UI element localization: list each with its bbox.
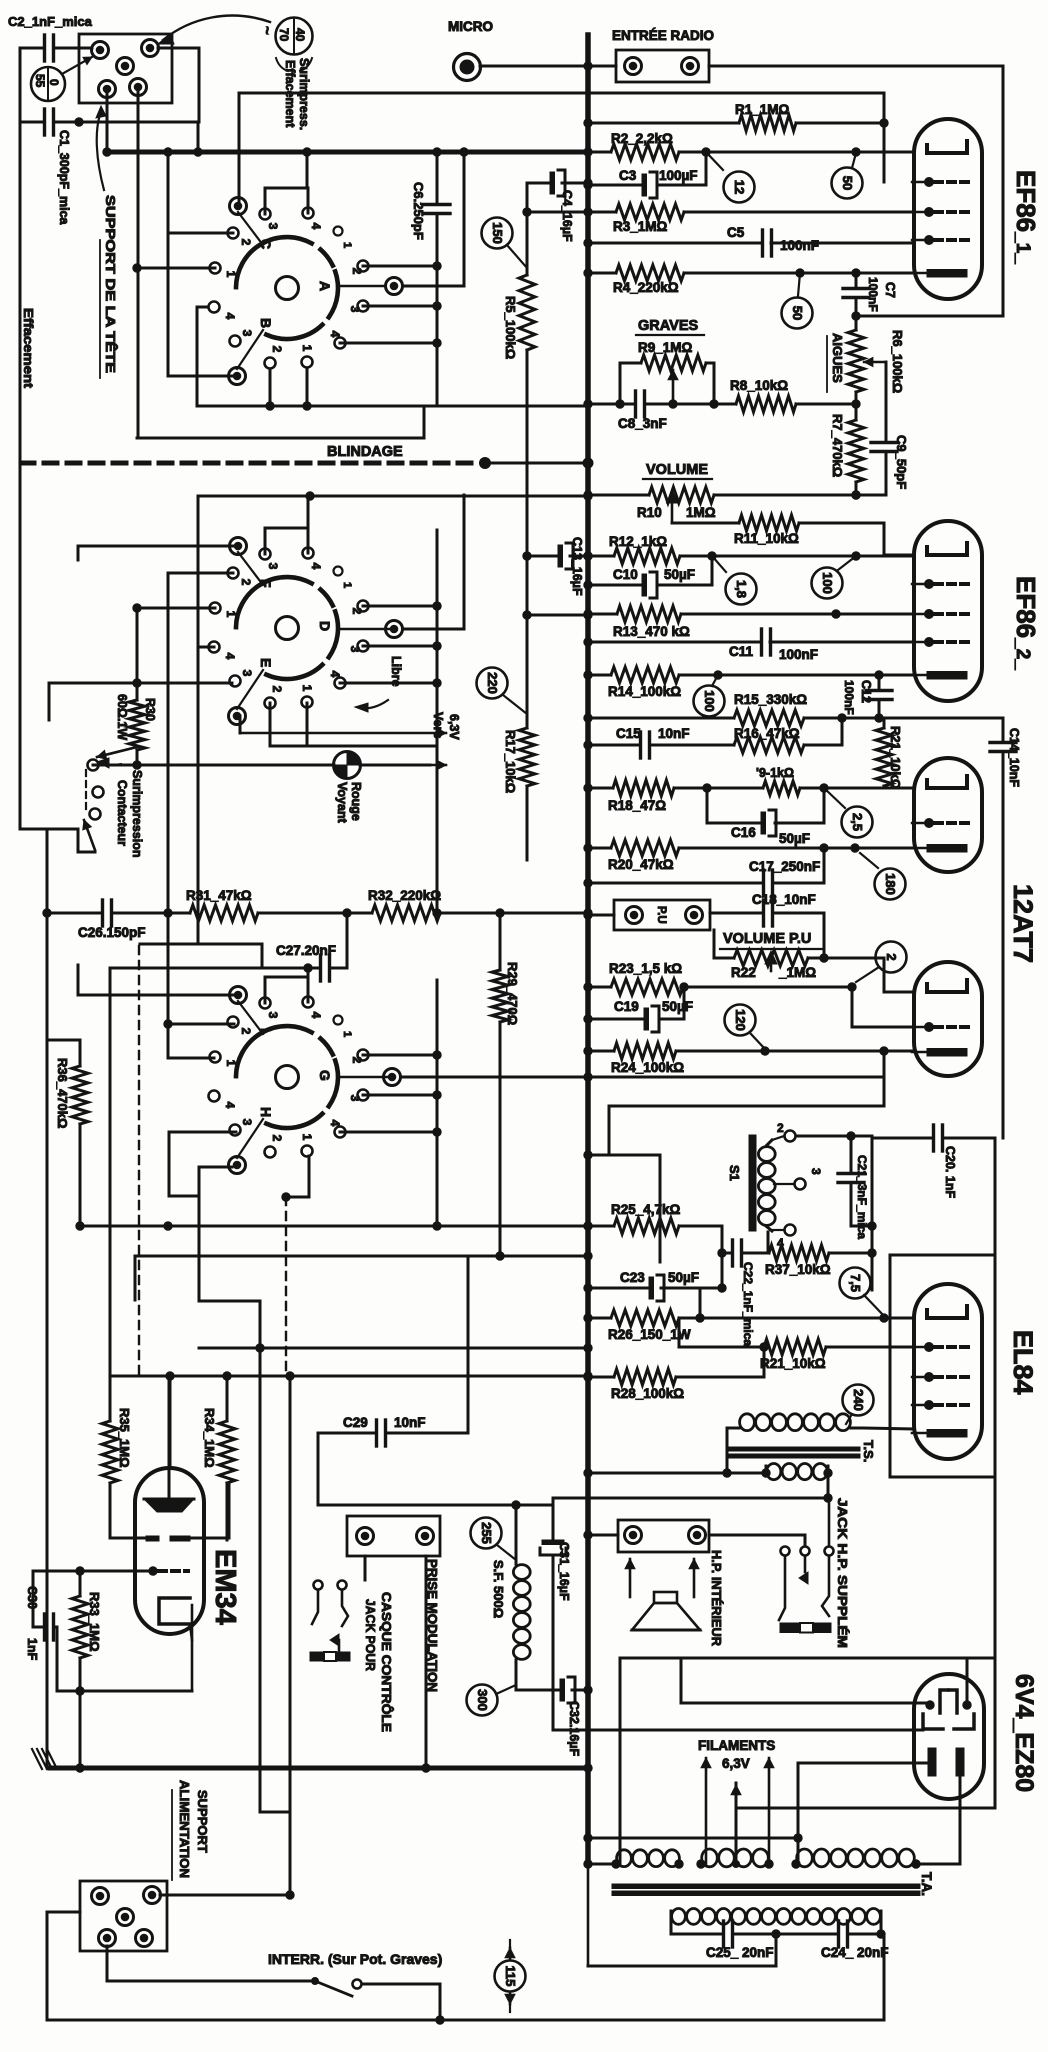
tube V6 EM34 deflectors [146, 1536, 190, 1541]
capacitor C32 [516, 1677, 592, 1757]
svg-text:C18_10nF: C18_10nF [752, 892, 816, 907]
svg-text:C7: C7 [883, 282, 897, 298]
svg-text:7,5: 7,5 [848, 1274, 863, 1292]
jack casque contacts [312, 1581, 348, 1653]
capacitor C12 [842, 675, 892, 722]
tube V6 EM34 bracket [159, 1598, 192, 1691]
wire [135, 1252, 592, 1300]
svg-text:2: 2 [270, 1135, 284, 1142]
transformer TS secondary [762, 1464, 832, 1480]
svg-text:C15: C15 [616, 726, 641, 741]
label support de la tete [100, 195, 118, 378]
node 255 [471, 1518, 517, 1561]
resistor R11 [672, 515, 914, 555]
resistor R28 [584, 1343, 768, 1401]
transformer TS primary [727, 1414, 914, 1431]
tube V6 EM34 target (filled) [144, 1499, 194, 1512]
node 7,5 [840, 1268, 889, 1323]
svg-text:4: 4 [328, 1120, 342, 1127]
svg-text:2: 2 [350, 608, 364, 615]
resistor R5 [503, 183, 535, 728]
wire [796, 1136, 876, 1230]
rotary switch wiper terminals [229, 198, 264, 385]
tube U3A 12AT7 anode (dashed) [912, 819, 968, 828]
tube U2 EF86_2 grid-3 (dashed) [912, 610, 968, 619]
resistor R7 [830, 392, 864, 499]
svg-text:EL84: EL84 [1008, 1330, 1038, 1395]
svg-text:2: 2 [239, 239, 253, 246]
wire [265, 964, 441, 1226]
svg-text:4: 4 [309, 1012, 323, 1019]
svg-text:3: 3 [266, 223, 280, 230]
contactor dashed link [85, 770, 87, 812]
wire [46, 913, 49, 1768]
wire [139, 496, 214, 1376]
capacitor C27 [110, 913, 347, 981]
svg-text:3: 3 [809, 1168, 823, 1175]
support alim box [80, 1881, 167, 1951]
wire [164, 573, 233, 1058]
capacitor C13 [527, 537, 592, 596]
label HP INTERIEUR [709, 1550, 724, 1647]
svg-text:4: 4 [328, 671, 342, 678]
capacitor C3 [584, 152, 706, 198]
tube U1 EF86_1 anode (dashed) [912, 236, 968, 245]
label 6V4_EZ80 [1010, 1674, 1038, 1792]
svg-text:1: 1 [300, 685, 314, 692]
svg-text:SUPPORT DE LA TÊTE: SUPPORT DE LA TÊTE [103, 195, 118, 373]
svg-text:2: 2 [270, 686, 284, 693]
label T.S [861, 1440, 876, 1462]
resistor R2 [584, 131, 914, 160]
rotary switch arcs [236, 577, 338, 679]
svg-text:100nF: 100nF [842, 680, 856, 715]
wire 6,3V feed [584, 1834, 802, 1842]
wire filament 2 [916, 1776, 960, 1864]
rotary switch wiper terminals [229, 987, 264, 1174]
tube U1 EF86_1 grid-2 (dashed) [912, 178, 968, 187]
svg-text:ALIMENTATION: ALIMENTATION [177, 1780, 192, 1878]
rotary switch hub [276, 277, 299, 300]
svg-text:2,5: 2,5 [850, 813, 865, 831]
node 50 a [832, 153, 863, 199]
svg-text:C26.150pF: C26.150pF [78, 925, 146, 940]
tube U3B 12AT7 cathode [912, 1049, 967, 1057]
capacitor C6 [411, 152, 450, 406]
tube V6 EM34 envelope [135, 1468, 204, 1634]
capacitor C25 [671, 1921, 780, 1960]
heavy bus y152 [103, 148, 588, 156]
svg-text:220: 220 [485, 672, 500, 694]
wire [588, 1864, 776, 1966]
svg-text:C31_16µF: C31_16µF [557, 1542, 571, 1601]
svg-text:R22: R22 [731, 965, 756, 980]
tube U4 EL84 grid-2 (dashed) [912, 1343, 968, 1352]
EL84 stage box [890, 1255, 995, 1477]
svg-text:BLINDAGE: BLINDAGE [327, 444, 403, 460]
svg-text:0: 0 [47, 79, 61, 86]
svg-text:100nF: 100nF [779, 647, 818, 662]
tube U4 EL84 envelope [914, 1284, 982, 1459]
resistor R13 [584, 606, 914, 639]
svg-text:R25_4,7kΩ: R25_4,7kΩ [611, 1202, 681, 1217]
svg-text:INTERR. (Sur Pot. Graves): INTERR. (Sur Pot. Graves) [268, 1951, 442, 1967]
rotary switch pins [209, 208, 369, 369]
node 100 b [694, 675, 725, 717]
svg-text:70: 70 [277, 28, 291, 42]
svg-text:S1: S1 [727, 1165, 742, 1181]
label C30 [25, 1586, 39, 1661]
resistor R25 [584, 1202, 722, 1253]
wire [137, 87, 140, 438]
svg-text:3: 3 [266, 563, 280, 570]
svg-text:R1_1MΩ: R1_1MΩ [735, 102, 790, 117]
svg-text:2: 2 [350, 268, 364, 275]
svg-text:Voyant: Voyant [335, 782, 349, 824]
wire anode row [681, 1658, 930, 1703]
svg-text:10nF: 10nF [394, 1415, 426, 1430]
wire [33, 1567, 153, 1575]
wire [883, 123, 886, 182]
rotary switch wiper terminals [229, 538, 264, 725]
label INTERR [268, 1951, 442, 1967]
svg-text:Rouge: Rouge [349, 782, 363, 821]
svg-text:C10: C10 [613, 567, 638, 582]
wire [57, 1687, 192, 1695]
node 100 a [712, 552, 914, 599]
svg-text:1: 1 [224, 271, 238, 278]
potentiometer R22 [714, 930, 914, 992]
tube V6 EM34 grid (dashed) [149, 1567, 188, 1575]
earth bus [50, 1764, 592, 1772]
wire [584, 1469, 832, 1502]
svg-text:CASQUE CONTRÔLE: CASQUE CONTRÔLE [379, 1592, 394, 1732]
resistor R31 [186, 888, 351, 921]
vers 6,3V arrows [240, 716, 446, 770]
resistor R26 [584, 1310, 914, 1342]
ground hatch [32, 1749, 57, 1769]
entree radio box [616, 50, 709, 82]
label VOLUME [643, 462, 712, 479]
svg-text:R3_1MΩ: R3_1MΩ [613, 219, 668, 234]
rotary switch arcs [236, 1026, 338, 1128]
label MICRO [448, 19, 493, 34]
svg-text:C1_300pF_mica: C1_300pF_mica [57, 130, 71, 226]
rotary switch hub [276, 617, 299, 640]
tube U3A 12AT7 envelope [914, 758, 982, 872]
resistor R8 [730, 378, 860, 412]
svg-text:C24_ 20nF: C24_ 20nF [821, 1945, 889, 1960]
svg-text:3: 3 [348, 1095, 362, 1102]
wire [881, 1934, 884, 2020]
svg-text:C12: C12 [859, 680, 873, 703]
svg-text:VOLUME P.U: VOLUME P.U [723, 931, 811, 947]
tube U1 EF86_1 cathode [912, 270, 967, 278]
wire [282, 1156, 309, 1201]
wire [168, 152, 237, 376]
potentiometer R6 [848, 316, 905, 438]
svg-text:JACK POUR: JACK POUR [363, 1599, 378, 1672]
label JACK POUR CASQUE CONTROLE [363, 1592, 394, 1732]
capacitor C20 [872, 1125, 995, 1198]
label EF86_1 [1011, 170, 1041, 264]
svg-text:1,8: 1,8 [734, 580, 749, 598]
wire [106, 89, 109, 152]
svg-text:C3: C3 [619, 168, 637, 183]
transformer TA winding 2 [697, 1849, 773, 1868]
node 300 [467, 1685, 517, 1716]
svg-text:B: B [258, 318, 274, 328]
svg-text:R4_220kΩ: R4_220kΩ [613, 280, 679, 295]
label EF86_2 [1011, 576, 1041, 670]
head socket box [79, 34, 172, 103]
svg-text:50µF: 50µF [779, 831, 810, 846]
capacitor C18 [710, 892, 824, 958]
wire volume row [584, 491, 860, 499]
svg-text:255: 255 [479, 1522, 494, 1544]
svg-text:50: 50 [840, 176, 855, 190]
capacitor C4 [527, 170, 592, 242]
wire [79, 48, 199, 122]
svg-text:R17_10kΩ: R17_10kΩ [503, 730, 518, 793]
resistor R33 [72, 1571, 102, 1691]
tube U3B 12AT7 grid bracket [927, 980, 967, 992]
resistor R15 [584, 692, 846, 726]
wire [340, 266, 437, 343]
svg-text:C8_3nF: C8_3nF [618, 416, 667, 431]
resistor R36 [55, 1040, 88, 1226]
tube V5 plate 1 [926, 1690, 948, 1713]
rotary switch section letters [258, 239, 333, 328]
terminal D out [338, 495, 464, 638]
svg-text:60Ω.1W: 60Ω.1W [115, 694, 129, 740]
svg-text:~: ~ [258, 26, 275, 35]
svg-text:P.U: P.U [655, 906, 667, 924]
svg-text:C4_16µF: C4_16µF [560, 190, 574, 242]
svg-text:50: 50 [790, 306, 805, 320]
svg-text:A: A [317, 281, 333, 291]
svg-text:3: 3 [240, 1119, 254, 1126]
tube U4 EL84 grid-1 bracket [927, 1306, 967, 1318]
tube V5 filaments [928, 1748, 964, 1776]
svg-text:JACK H.P. SUPPLÉM: JACK H.P. SUPPLÉM [835, 1498, 850, 1648]
terminal G out [338, 1069, 884, 1086]
svg-text:Libre: Libre [389, 656, 403, 687]
resistor R19 [756, 766, 914, 795]
svg-text:D: D [317, 621, 333, 631]
svg-text:T.S.: T.S. [861, 1440, 876, 1462]
capacitor C14 [990, 718, 1021, 1138]
svg-text:3: 3 [348, 646, 362, 653]
label C2 [8, 14, 93, 29]
capacitor C30 [33, 1571, 57, 1691]
label GRAVES [636, 318, 704, 335]
node 150 [482, 218, 528, 269]
wire [169, 1376, 172, 1468]
wire [709, 65, 1003, 68]
label VOLUME P.U [720, 931, 822, 949]
label S1 [727, 1165, 742, 1181]
wire [137, 406, 424, 438]
svg-text:C23: C23 [620, 1270, 645, 1285]
label HP SUPPLEM [835, 1498, 850, 1648]
svg-text:R5_100kΩ: R5_100kΩ [503, 296, 518, 359]
svg-text:2: 2 [239, 579, 253, 586]
svg-text:2: 2 [270, 346, 284, 353]
wire [723, 1428, 731, 1477]
node 1,8 [712, 556, 757, 605]
resistor R34 [202, 1376, 235, 1540]
wire [364, 1556, 367, 1580]
svg-text:EM34: EM34 [209, 1549, 241, 1625]
svg-text:40: 40 [293, 28, 307, 42]
resistor R4 [584, 265, 914, 295]
resistor R17 [503, 695, 535, 860]
wire [93, 764, 137, 767]
wire [318, 1501, 553, 1564]
svg-text:Vers: Vers [431, 712, 445, 738]
wire [584, 911, 614, 919]
label EM34 [209, 1549, 241, 1625]
bottom wire [95, 2019, 884, 2022]
resistor R14 [584, 667, 914, 699]
svg-text:3: 3 [240, 330, 254, 337]
tube U3A 12AT7 cathode [912, 845, 967, 853]
svg-text:4: 4 [223, 1102, 237, 1109]
svg-text:C16: C16 [731, 825, 756, 840]
svg-text:4: 4 [223, 653, 237, 660]
entree radio terminals [625, 58, 699, 75]
wire [76, 1691, 84, 1772]
wire [133, 604, 215, 683]
microphone [454, 54, 481, 81]
resistor R23 [584, 961, 914, 1027]
svg-text:12AT7: 12AT7 [1008, 884, 1038, 963]
wire [842, 717, 1003, 720]
wire [78, 965, 238, 995]
tube U2 EF86_2 envelope [914, 521, 982, 701]
svg-text:50µF: 50µF [662, 999, 693, 1014]
wire shield tap [198, 458, 593, 500]
wire [47, 1912, 95, 2020]
svg-text:12: 12 [732, 180, 747, 194]
svg-text:6,3V: 6,3V [447, 714, 461, 740]
svg-text:4: 4 [223, 313, 237, 320]
svg-text:100: 100 [702, 690, 717, 712]
tube V5 plate 2 [620, 1658, 995, 1713]
svg-text:300: 300 [475, 1689, 490, 1711]
coil SF 500 [491, 1560, 530, 1690]
wire [133, 264, 215, 272]
prise PU box [614, 900, 710, 930]
svg-text:4: 4 [328, 331, 342, 338]
svg-text:Effacement: Effacement [21, 308, 35, 389]
wire y404 left [197, 307, 588, 410]
svg-text:R21_10kΩ: R21_10kΩ [888, 726, 903, 789]
tube V5 diode brackets [923, 1714, 974, 1729]
svg-text:55: 55 [33, 74, 47, 88]
wire [19, 48, 22, 122]
wire [199, 1344, 592, 1352]
svg-text:R33_1MΩ: R33_1MΩ [87, 1592, 102, 1652]
capacitor C15 [584, 726, 690, 758]
wire [289, 1376, 292, 1895]
support alim pins [92, 1887, 161, 1947]
jack casque sleeve [310, 1652, 350, 1661]
coil S1 core [749, 1135, 756, 1231]
svg-text:SUPPORT: SUPPORT [195, 1790, 210, 1853]
svg-text:R18_47Ω: R18_47Ω [608, 798, 666, 813]
node 2 [856, 942, 907, 983]
resistor R32 [347, 888, 592, 921]
label Vers 6,3V [431, 712, 461, 740]
tube U4 EL84 grid-3 (dashed) [912, 1373, 968, 1382]
svg-text:1: 1 [341, 242, 353, 248]
jack HP supplem contacts [779, 1498, 834, 1620]
svg-text:C19: C19 [614, 999, 639, 1014]
wire [78, 546, 238, 560]
tube U1 EF86_1 grid-1 bracket [927, 141, 967, 153]
wire [553, 1497, 828, 1500]
svg-text:MICRO: MICRO [448, 19, 493, 34]
capacitor C19 [584, 987, 693, 1032]
label Effacement [21, 308, 35, 389]
label AIGUES [827, 333, 845, 392]
resistor R37 [765, 1245, 876, 1290]
svg-text:R28_100kΩ: R28_100kΩ [611, 1386, 684, 1401]
wire right column [994, 1138, 997, 1808]
capacitor C16 [707, 788, 824, 846]
svg-text:240: 240 [851, 1389, 866, 1411]
wire [270, 703, 437, 746]
capacitor C9 [856, 435, 909, 495]
contactor pole 1 [88, 747, 138, 798]
resistor R35 [102, 1376, 132, 1483]
resistor R3 [527, 204, 914, 234]
capacitor C22 [718, 1240, 769, 1346]
svg-text:100: 100 [820, 572, 835, 594]
wire [340, 530, 441, 917]
svg-text:R8_10kΩ: R8_10kΩ [730, 378, 788, 393]
svg-text:1: 1 [224, 611, 238, 618]
label EL84 [1008, 1330, 1038, 1395]
wire 6,3V tap [736, 1783, 995, 1864]
wire [265, 148, 311, 214]
svg-text:T.A.: T.A. [919, 1872, 934, 1896]
svg-text:C11: C11 [729, 644, 754, 659]
svg-text:R14_100kΩ: R14_100kΩ [608, 684, 681, 699]
rotary switch arcs [236, 237, 338, 339]
capacitor C24 [776, 1921, 889, 1960]
capacitor C29 [318, 1256, 468, 1505]
tube U3B 12AT7 envelope [914, 962, 982, 1076]
prise modulation box [347, 1516, 440, 1556]
bracket [276, 58, 312, 71]
label Effacement Surimpress. [283, 58, 311, 130]
svg-text:C9_50pF: C9_50pF [894, 435, 909, 489]
wire [768, 1226, 872, 1253]
tube U1 EF86_1 grid-3 (dashed) [912, 208, 968, 217]
capacitor C31 [540, 1498, 571, 1730]
wire bracket row [553, 1729, 923, 1732]
coil S1 winding [758, 1140, 775, 1231]
svg-text:R10: R10 [637, 505, 662, 520]
svg-text:R13_470 kΩ: R13_470 kΩ [613, 624, 690, 639]
label Libre [355, 656, 403, 712]
tube U4 EL84 cathode [912, 1430, 967, 1438]
svg-text:C22_1nF_mica: C22_1nF_mica [741, 1262, 755, 1346]
wire [425, 1556, 428, 1768]
